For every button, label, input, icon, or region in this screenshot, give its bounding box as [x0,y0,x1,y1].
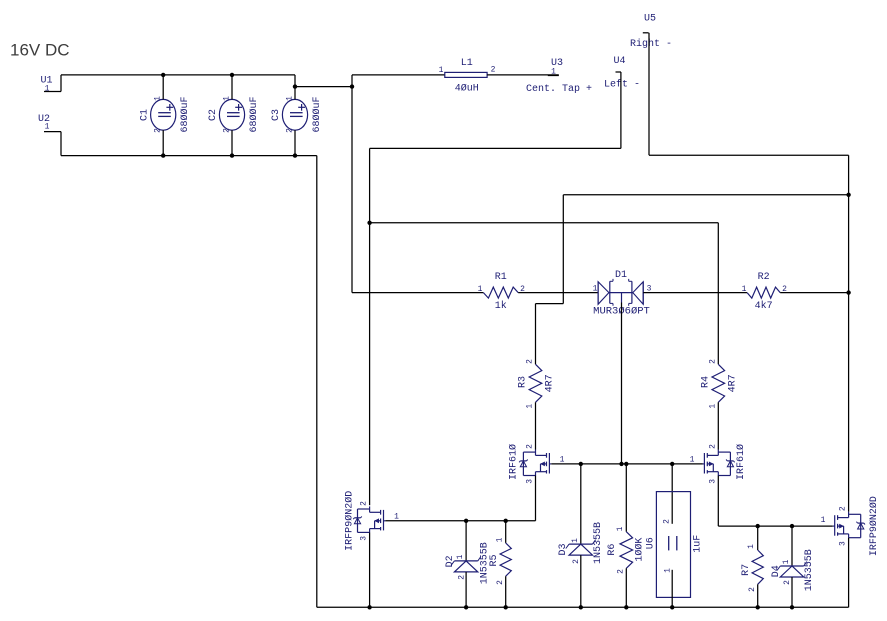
capacitor plates inside U6 [668,536,670,550]
wire R7 top lead [757,526,759,550]
wire U6 top lead [671,464,673,524]
wire C2 bottom lead [231,130,233,155]
svg-text:1N5355B: 1N5355B [593,522,604,564]
junction R7 top [756,524,760,528]
wire C3 top to junction [295,86,352,88]
wire D2 bottom to bus [465,572,467,607]
svg-text:R6: R6 [607,544,618,556]
svg-text:R5: R5 [489,554,500,566]
svg-text:4R7: 4R7 [544,374,555,392]
wire D3 top lead [580,464,582,544]
wire D4 bottom to bus [791,577,793,607]
svg-text:Cent. Tap +: Cent. Tap + [526,84,592,95]
svg-text:1: 1 [154,96,163,101]
wire down toward R3 [562,195,564,304]
wire jog left [536,303,564,305]
zener diode D2 [454,560,477,562]
wire main node down [351,87,353,293]
resistor R4 [712,364,725,402]
junction R5 bottom [504,605,508,609]
wire ground bus [317,606,849,608]
wire L1 to U3 [487,74,559,76]
svg-text:C2: C2 [208,109,219,121]
junction R2 node [846,290,850,294]
svg-text:R3: R3 [518,376,529,388]
svg-text:2: 2 [154,128,163,133]
wire U4 column down [369,148,371,505]
svg-text:1N5355B: 1N5355B [804,549,815,591]
junction C1 bottom [161,153,165,157]
connector U5 [643,32,649,34]
wire R5 top lead [505,521,507,543]
junction R7 bottom [756,605,760,609]
junction U5 branch [846,193,850,197]
svg-text:R1: R1 [495,272,507,283]
svg-text:3: 3 [708,479,717,484]
wire left gate row [385,520,535,522]
svg-text:IRFP9ØN2ØD: IRFP9ØN2ØD [868,496,880,556]
svg-text:1: 1 [782,559,791,564]
wire U4 row left [370,147,621,149]
svg-text:2: 2 [360,501,369,506]
wire right gate row [718,525,833,527]
wire C2 top lead [231,75,233,100]
wire R5 bottom to bus [505,576,507,607]
svg-text:2: 2 [222,128,231,133]
junction U4 branch [367,221,371,225]
svg-text:1: 1 [439,66,444,75]
connector U3 [548,75,559,77]
resistor R5 [500,543,511,576]
svg-text:2: 2 [572,559,581,564]
junction D4 bottom [790,605,794,609]
svg-text:4k7: 4k7 [755,300,773,312]
svg-text:3: 3 [526,479,535,484]
svg-text:4ØuH: 4ØuH [455,82,479,94]
wire R6 top lead [625,464,627,532]
junction D1 tap [619,462,623,466]
wire -rail drop to ground bus [316,156,318,608]
wire R6 bottom to bus [625,568,627,607]
wire down to R4 [717,223,719,364]
junction C3 bottom [293,153,297,157]
wire IRF610 right source down [717,476,719,527]
wire R1 to D1 [518,292,598,294]
svg-text:2: 2 [839,506,848,511]
wire down to R3 [535,304,537,365]
resistor R7 [752,550,763,584]
resistor R1 [483,287,518,298]
svg-text:U6: U6 [646,537,657,549]
svg-text:IRFP9ØN2ØD: IRFP9ØN2ØD [344,491,356,551]
svg-text:2: 2 [526,359,535,364]
transistor Q IRFP90N20D left [369,506,371,512]
zener diode D3 [569,543,592,545]
wire C1 bottom lead [162,130,164,155]
resistor R3 [529,364,542,402]
wire +rail top [61,74,295,76]
svg-text:1: 1 [616,526,625,531]
junction C2 top [230,73,234,77]
wire R2 to U5 column [780,292,848,294]
wire U1 up to +rail [60,75,62,92]
svg-text:1: 1 [456,554,465,559]
wire R3 to Q drain [535,402,537,449]
junction IRFP left source [367,605,371,609]
svg-text:R7: R7 [741,564,752,576]
junction R6 top [624,462,628,466]
svg-text:1: 1 [45,123,50,132]
wire U5 column down right side [848,155,850,512]
inductor L1 [445,72,487,77]
svg-text:2: 2 [708,359,717,364]
svg-text:68ØØuF: 68ØØuF [311,96,323,132]
wire U5 branch left [563,194,848,196]
svg-text:68ØØuF: 68ØØuF [179,96,191,132]
junction R6 bottom [624,605,628,609]
module U6 box [656,492,690,598]
svg-text:2: 2 [748,587,757,592]
junction C3 top [293,84,297,88]
svg-text:U4: U4 [613,56,625,67]
svg-text:1ØØK: 1ØØK [634,538,646,562]
svg-text:3: 3 [360,536,369,541]
capacitor C2 [219,99,244,130]
svg-text:2: 2 [458,575,467,580]
svg-text:4R7: 4R7 [727,374,738,392]
zener diode D4 [780,565,803,567]
wire C3 bottom lead [294,130,296,155]
wire R4 to Q drain [717,402,719,449]
svg-text:1: 1 [551,68,556,77]
wire junction up to L1 row [351,75,353,87]
svg-text:2: 2 [783,580,792,585]
svg-text:IRF61Ø: IRF61Ø [508,444,520,480]
wire -rail bottom [61,155,317,157]
wire U2 down to -rail [60,132,62,156]
svg-text:2: 2 [496,580,505,585]
svg-text:U5: U5 [644,13,656,24]
svg-text:Right -: Right - [630,38,672,50]
junction U6 top [670,462,674,466]
svg-text:1: 1 [45,85,50,94]
svg-text:R2: R2 [758,272,770,283]
dual diode D1 MUR3060PT [597,282,599,305]
svg-text:2: 2 [526,444,535,449]
transistor Q IRF610 left [535,450,537,456]
junction R5 top [504,519,508,523]
svg-text:1: 1 [593,285,598,294]
transistor Q IRFP90N20D right [848,512,850,518]
svg-text:2: 2 [663,519,672,524]
svg-text:2: 2 [491,66,496,75]
wire to R1 pin 1 [352,292,483,294]
wire gate row [551,463,702,465]
wire D4 top lead [791,526,793,566]
svg-text:1: 1 [478,285,483,294]
svg-text:68ØØuF: 68ØØuF [248,96,260,132]
svg-text:1: 1 [222,96,231,101]
capacitor C1 [151,99,176,130]
svg-text:1: 1 [496,537,505,542]
wire IRF610 left source down [535,476,537,521]
svg-text:Left -: Left - [604,78,640,90]
svg-text:1: 1 [571,538,580,543]
wire IRFP right source to bus [848,538,850,608]
svg-text:1: 1 [285,96,294,101]
connector U2 [44,131,61,133]
svg-text:16V DC: 16V DC [10,40,70,59]
svg-text:2: 2 [617,569,626,574]
junction main node [350,84,354,88]
wire D2 top lead [465,521,467,561]
connector U1 [44,91,61,93]
svg-text:1uF: 1uF [693,535,704,553]
wire U4 branch right [370,222,719,224]
svg-text:D1: D1 [615,270,627,281]
svg-text:L1: L1 [461,58,473,69]
svg-text:1: 1 [747,544,756,549]
transistor Q IRF610 right [717,450,719,456]
resistor R6 [620,532,633,569]
junction C2 bottom [230,153,234,157]
svg-text:1: 1 [821,516,826,525]
wire R7 bottom to bus [757,584,759,607]
connector U4 [616,71,622,73]
junction D3 top [579,462,583,466]
svg-text:D3: D3 [558,543,569,555]
wire step down at C3 [294,75,296,87]
wire D1 center tap down [621,303,623,464]
wire to L1 pin 1 [352,74,445,76]
svg-text:1: 1 [526,404,535,409]
svg-text:2: 2 [708,444,717,449]
capacitor C3 [282,99,307,130]
svg-text:3: 3 [839,541,848,546]
svg-text:R4: R4 [700,376,711,388]
svg-text:1: 1 [708,404,717,409]
svg-text:1: 1 [664,568,673,573]
svg-text:IRF61Ø: IRF61Ø [735,444,747,480]
svg-text:D4: D4 [771,565,782,577]
wire U5 down [648,33,650,155]
junction D2 top [464,519,468,523]
junction D4 top [790,524,794,528]
wire C3 top lead [294,87,296,100]
wire C1 top lead [162,75,164,100]
svg-text:1: 1 [560,456,565,465]
svg-text:1: 1 [690,456,695,465]
wire U5 right [649,154,849,156]
svg-text:C3: C3 [271,109,282,121]
wire D3 bottom to bus [580,555,582,607]
svg-text:2: 2 [285,128,294,133]
svg-text:C1: C1 [139,109,150,121]
resistor R2 [747,287,780,298]
junction D3 bottom [579,605,583,609]
wire D1 to R2 [643,292,747,294]
svg-text:D2: D2 [445,555,456,567]
wire IRFP left source to bus [369,532,371,607]
junction D2 bottom [464,605,468,609]
junction U6 bottom [670,605,674,609]
junction C1 top [161,73,165,77]
wire U4 down [620,72,622,148]
wire U6 bottom lead [671,570,673,608]
svg-text:1k: 1k [495,300,507,312]
svg-text:1: 1 [742,285,747,294]
svg-text:1: 1 [394,512,399,521]
